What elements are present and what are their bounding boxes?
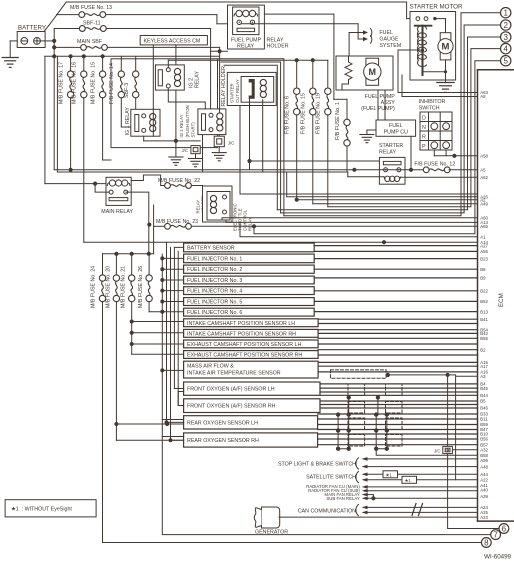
FRONT OXYGEN (A/F) SENSOR LH box: [184, 382, 320, 395]
wire generator to A23: [279, 516, 478, 518]
M/B fuse No. 20 column: [105, 254, 119, 440]
fuel pump CU: [360, 120, 416, 170]
starter motor: [398, 3, 463, 82]
asterisk 1 box a: [383, 471, 398, 478]
svg-text:B13: B13: [480, 309, 488, 314]
wire main relay contact out: [126, 192, 149, 254]
EXHAUST CAMSHAFT POSITION SENSOR R box: [184, 351, 319, 359]
svg-text:SYSTEM: SYSTEM: [379, 43, 401, 49]
M/B fuse No. 17 column: [58, 56, 74, 170]
svg-text:(PUSH BUTTON: (PUSH BUTTON: [185, 105, 190, 137]
svg-text:M/B FUSE No. 16: M/B FUSE No. 16: [72, 62, 78, 104]
wires IG cluster: [219, 51, 221, 113]
svg-text:SBF-3: SBF-3: [124, 83, 130, 98]
svg-text:J/C: J/C: [228, 141, 234, 146]
BATTERY SENSOR box: [184, 243, 315, 252]
svg-text:INHIBITOR: INHIBITOR: [419, 99, 446, 105]
svg-text:GAUGE: GAUGE: [379, 36, 399, 42]
wire SC relay outputs: [249, 99, 251, 170]
svg-text:4: 4: [503, 44, 508, 53]
F/B fuse No. 12: [414, 162, 455, 173]
M/B fuse No. 15 column: [90, 56, 111, 160]
svg-text:B2: B2: [480, 347, 486, 352]
M/B fuse No. 13: [57, 5, 228, 24]
fuel pump assy box: [336, 56, 393, 90]
svg-text:A59: A59: [480, 458, 488, 463]
wires sensor boxes to ECM: [314, 245, 477, 247]
wire stub 194: [240, 193, 478, 195]
svg-text:B55: B55: [480, 336, 488, 341]
wire top feed to starter motor: [66, 1, 406, 3]
generator: [254, 507, 288, 536]
svg-text:BATTERY SENSOR: BATTERY SENSOR: [187, 245, 235, 251]
satellite switch wires: [356, 472, 359, 483]
oxygen shield dashed boxes: [348, 384, 402, 446]
svg-text:A27: A27: [480, 243, 488, 248]
svg-text:EXHAUST CAMSHAFT POSITION SENS: EXHAUST CAMSHAFT POSITION SENSOR LH: [187, 342, 301, 348]
MAIN SBF: [54, 39, 219, 51]
wire diagonal battery to top feed: [49, 2, 67, 26]
starter relay: [379, 143, 405, 184]
svg-text:REAR OXYGEN SENSOR LH: REAR OXYGEN SENSOR LH: [187, 420, 258, 426]
node battery bus: [53, 29, 55, 170]
svg-text:SBF-11: SBF-11: [83, 21, 101, 27]
wire J/C down to connector 6: [448, 454, 499, 529]
svg-text:A8: A8: [480, 94, 486, 99]
ECM box: [478, 70, 514, 521]
svg-text:BATTERY: BATTERY: [18, 25, 46, 32]
wire battery to ground: [10, 40, 17, 42]
svg-text:FUEL INJECTOR No. 3: FUEL INJECTOR No. 3: [187, 278, 242, 284]
FUEL INJECTOR No. 6 box: [184, 308, 315, 316]
svg-text:F/B FUSE No. 12: F/B FUSE No. 12: [414, 162, 455, 168]
svg-text:F/B FUSE No. 6: F/B FUSE No. 6: [285, 96, 291, 134]
svg-text:WI-60499: WI-60499: [484, 554, 511, 561]
wire battery positive feed: [40, 40, 54, 42]
svg-text:M/B FUSE No. 13: M/B FUSE No. 13: [70, 5, 112, 11]
wire header mid fuses: [103, 253, 154, 255]
svg-text:RELAY HOLDER: RELAY HOLDER: [221, 66, 227, 107]
svg-text:KEYLESS ACCESS CM: KEYLESS ACCESS CM: [144, 39, 201, 45]
svg-text:A5: A5: [480, 168, 486, 173]
svg-text:FUEL INJECTOR No. 4: FUEL INJECTOR No. 4: [187, 289, 242, 295]
wire circle 5: [254, 61, 501, 234]
svg-text:A3: A3: [480, 374, 486, 379]
svg-text:M/B FUSE No. 21: M/B FUSE No. 21: [121, 266, 127, 308]
wire FP relay lower to gauge: [241, 23, 358, 25]
wire main relay coil out: [131, 175, 160, 181]
J/C right: [203, 135, 235, 172]
SBF-11: [54, 21, 210, 114]
svg-text:STARTER MOTOR: STARTER MOTOR: [410, 3, 463, 10]
svg-text:J/C: J/C: [182, 148, 188, 153]
svg-text:A23: A23: [480, 515, 488, 520]
rail C: [170, 247, 172, 440]
INTAKE CAMSHAFT POSITION SENSOR LH box: [184, 319, 319, 327]
svg-text:M: M: [369, 67, 377, 77]
svg-text:B56: B56: [480, 437, 488, 442]
svg-text:R: R: [422, 135, 426, 141]
wire inhibitor to A58: [433, 150, 435, 156]
battery: [17, 25, 46, 48]
J/C left: [182, 146, 203, 167]
svg-text:A32: A32: [480, 448, 488, 453]
rail to connector 7: [162, 254, 491, 534]
IG 2 relay: [155, 65, 200, 90]
F/B fuse No. 1 column: [334, 99, 350, 172]
svg-text:B5: B5: [480, 399, 486, 404]
keyless access CM: [140, 36, 207, 110]
wire J/C to A32: [452, 449, 477, 451]
svg-text:FUEL: FUEL: [379, 30, 393, 36]
svg-text:SWITCH: SWITCH: [419, 106, 440, 112]
svg-text:A58: A58: [480, 154, 488, 159]
svg-text:P: P: [422, 144, 426, 150]
svg-text:IG 1 RELAY: IG 1 RELAY: [179, 114, 184, 137]
wire to starter motor contacts: [406, 2, 408, 19]
svg-text:SUB FAN RELAY: SUB FAN RELAY: [326, 496, 359, 501]
F/B fuse No. 6 column: [285, 60, 300, 200]
svg-text:2: 2: [503, 21, 508, 30]
svg-text:REAR OXYGEN SENSOR RH: REAR OXYGEN SENSOR RH: [187, 438, 259, 444]
svg-text:RELAY: RELAY: [237, 44, 254, 50]
svg-text:CAN COMMUNICATION: CAN COMMUNICATION: [298, 508, 356, 514]
wire left feed: [44, 56, 46, 183]
svg-text:F/B FUSE No. 19: F/B FUSE No. 19: [316, 93, 322, 134]
stubs into sensor boxes: [149, 247, 184, 440]
wire circle 3: [277, 37, 500, 210]
wire A1: [240, 222, 478, 237]
ground battery: [2, 58, 18, 68]
connector circles 1-5: [501, 8, 511, 66]
wire starter relay coil feed: [347, 172, 349, 177]
REAR OXYGEN SENSOR LH box: [184, 416, 318, 429]
wire IG1 output to JC: [143, 136, 145, 141]
svg-text:1: 1: [503, 9, 508, 18]
svg-text:EXHAUST CAMSHAFT POSITION SENS: EXHAUST CAMSHAFT POSITION SENSOR RH: [187, 353, 302, 359]
main relay: [101, 177, 133, 215]
shield drain wires: [338, 397, 477, 455]
svg-text:B52: B52: [480, 299, 488, 304]
IG 1 relay (push button start): [179, 105, 226, 137]
svg-text:STARTER: STARTER: [230, 83, 235, 103]
wire A2: [297, 199, 478, 201]
FUEL INJECTOR No. 4 box: [184, 287, 315, 295]
inhibitor switch: [419, 99, 452, 150]
svg-text:7: 7: [493, 530, 498, 539]
rail B: [166, 242, 168, 422]
svg-text:D: D: [422, 116, 426, 122]
footnote box: [5, 500, 96, 517]
rear oxygen feed from fuse column 20: [116, 424, 183, 440]
svg-text:6: 6: [502, 524, 507, 533]
wire A63: [397, 50, 399, 93]
asterisk 1 box b: [402, 476, 417, 483]
svg-text:SATELLITE SWITCH: SATELLITE SWITCH: [306, 475, 356, 481]
svg-text:FRONT OXYGEN (A/F) SENSOR RH: FRONT OXYGEN (A/F) SENSOR RH: [187, 404, 276, 410]
svg-text:CUT RELAY: CUT RELAY: [235, 79, 240, 103]
CAN communication wires: [356, 504, 359, 515]
connector circle 6: [499, 524, 509, 534]
M/B fuse No. 21 column: [121, 254, 135, 354]
IG relay holder box: [111, 59, 218, 148]
svg-text:J/C: J/C: [434, 448, 440, 453]
svg-text:N: N: [422, 125, 426, 131]
svg-text:PUMP CU: PUMP CU: [384, 130, 409, 136]
wire FP relay to corner: [264, 13, 334, 15]
svg-text:MAIN SBF: MAIN SBF: [77, 39, 103, 45]
ground starter motor: [437, 83, 454, 93]
wire A26: [287, 172, 478, 197]
svg-text:★1: ★1: [405, 478, 412, 483]
M/B fuse No. 24 column: [90, 254, 105, 543]
wire MAF shield to J/C: [388, 375, 478, 480]
svg-text:8: 8: [484, 538, 489, 547]
svg-text:A39: A39: [480, 494, 488, 499]
wire A8: [401, 75, 403, 97]
svg-text:5: 5: [503, 57, 508, 66]
motor fuel pump: [364, 58, 381, 85]
electronic throttle control relay: [207, 192, 230, 221]
radiator fan wires: [362, 485, 368, 489]
stop light & brake switch wires: [356, 458, 359, 469]
wires fuel pump assy to CU: [377, 90, 379, 120]
MASS AIR FLOW & INTAKE AIR TEMPERA box: [184, 361, 319, 378]
svg-text:M/B FUSE No. 26: M/B FUSE No. 26: [138, 266, 144, 308]
svg-text:STOP LIGHT & BRAKE SWITCH: STOP LIGHT & BRAKE SWITCH: [278, 462, 356, 468]
M/B fuse No. 23: [148, 205, 198, 254]
F/B fuse No. 15 column: [301, 60, 316, 204]
svg-text:HOLDER: HOLDER: [267, 44, 289, 50]
svg-text:FRONT OXYGEN (A/F) SENSOR LH: FRONT OXYGEN (A/F) SENSOR LH: [187, 387, 275, 393]
svg-text:A1: A1: [480, 234, 486, 239]
wire F/B fuse header: [168, 59, 327, 61]
svg-text:M/B FUSE No. 15: M/B FUSE No. 15: [90, 62, 96, 104]
wire A62: [401, 176, 478, 178]
svg-text:A65: A65: [480, 224, 488, 229]
switch rows bottom: [278, 462, 360, 515]
resistor fuel sender: [342, 56, 352, 90]
INTAKE CAMSHAFT POSITION SENSOR RH box: [184, 329, 319, 337]
rail D: [173, 247, 175, 388]
FUEL INJECTOR No. 1 box: [184, 254, 315, 263]
svg-text:INTAKE CAMSHAFT POSITION SENSO: INTAKE CAMSHAFT POSITION SENSOR LH: [187, 321, 295, 327]
wire keyless feed: [211, 50, 228, 52]
svg-text:B45: B45: [480, 386, 488, 391]
svg-text:A62: A62: [480, 175, 488, 180]
wires nested around starter cut relay: [218, 59, 284, 216]
twisted pair marks: [412, 504, 423, 516]
FRONT OXYGEN (A/F) SENSOR RH box: [184, 399, 320, 413]
svg-text:★1: ★1: [386, 473, 393, 478]
wire circle 1: [284, 13, 501, 216]
sensor stack: [184, 90, 489, 520]
svg-text:IG 1 RELAY: IG 1 RELAY: [125, 107, 131, 136]
MAF shield dashed box: [331, 370, 387, 378]
svg-text:B23: B23: [480, 256, 488, 261]
svg-text:INTAKE CAMSHAFT POSITION SENSO: INTAKE CAMSHAFT POSITION SENSOR RH: [187, 331, 296, 337]
SBF-3 column: [124, 56, 139, 109]
M/B fuse No. 22: [158, 175, 203, 188]
svg-text:F/B FUSE No. 1: F/B FUSE No. 1: [335, 102, 341, 140]
svg-text:B41: B41: [480, 317, 488, 322]
svg-text:B46: B46: [480, 406, 488, 411]
svg-text:F/B FUSE No. 14: F/B FUSE No. 14: [109, 63, 115, 104]
svg-text:A44: A44: [480, 472, 488, 477]
connector circle 7: [491, 530, 501, 540]
ground IG: [175, 141, 177, 157]
svg-text:F/B FUSE No. 15: F/B FUSE No. 15: [301, 93, 307, 134]
svg-text:FUEL: FUEL: [389, 123, 403, 129]
IG 1 relay: [125, 107, 160, 137]
F/B fuse No. 19 column: [316, 60, 331, 207]
fuel pump relay: [231, 7, 262, 50]
rail E: [177, 251, 179, 405]
wire fuse row header: [45, 55, 220, 57]
svg-text:FUEL INJECTOR No. 2: FUEL INJECTOR No. 2: [187, 267, 242, 273]
wire A49: [313, 203, 478, 205]
camshaft sensor feed stubs from fuse column 21: [132, 322, 184, 355]
svg-text:B22: B22: [480, 289, 488, 294]
wire A14 long from fuse16: [84, 241, 478, 243]
svg-text:FUEL INJECTOR No. 6: FUEL INJECTOR No. 6: [187, 310, 242, 316]
svg-text:3: 3: [503, 33, 508, 42]
wire A60: [222, 218, 478, 220]
svg-text:A40: A40: [480, 488, 488, 493]
svg-text:ECM: ECM: [498, 293, 505, 307]
svg-text:FUEL INJECTOR No. 5: FUEL INJECTOR No. 5: [187, 300, 242, 306]
F/B fuse No. 14 column: [109, 56, 131, 127]
svg-text:MAIN RELAY: MAIN RELAY: [101, 209, 133, 215]
svg-text:B44: B44: [480, 393, 488, 398]
relay holder (starter cut): [221, 66, 276, 107]
svg-text:A55: A55: [480, 249, 488, 254]
svg-text:FUEL INJECTOR No. 1: FUEL INJECTOR No. 1: [187, 256, 242, 262]
M/B fuse No. 26 column: [138, 254, 152, 312]
wire circle 2: [281, 25, 501, 213]
M/B fuse No. 16 column: [72, 56, 87, 242]
svg-text:GENERATOR: GENERATOR: [255, 530, 288, 536]
wire A65: [191, 225, 477, 227]
svg-text:B11: B11: [480, 417, 488, 422]
starter cut relay: [241, 77, 274, 103]
svg-text:M: M: [442, 42, 450, 53]
svg-text:START): START): [190, 122, 195, 138]
FUEL INJECTOR No. 3 box: [184, 276, 315, 284]
svg-text:M/B FUSE No. 24: M/B FUSE No. 24: [90, 266, 96, 308]
wire to connector 8: [103, 542, 482, 544]
svg-text:A48: A48: [480, 464, 488, 469]
FUEL INJECTOR No. 2 box: [184, 265, 315, 273]
wire A13: [226, 220, 478, 222]
ECM pin labels: [480, 90, 488, 520]
svg-text:INTAKE AIR TEMPERATURE SENSOR: INTAKE AIR TEMPERATURE SENSOR: [187, 371, 281, 377]
svg-text:M/B FUSE No. 23: M/B FUSE No. 23: [156, 219, 198, 225]
svg-text:RELAY: RELAY: [248, 217, 253, 231]
relay holder ETC: [196, 186, 253, 231]
connector circle 8: [481, 538, 491, 548]
svg-text:STARTER: STARTER: [379, 143, 403, 149]
REAR OXYGEN SENSOR RH box: [184, 433, 318, 447]
wire main relay coil feed: [94, 182, 97, 185]
wire circle 4: [328, 49, 501, 207]
svg-text:A49: A49: [480, 202, 488, 207]
wire A5 line: [54, 169, 423, 171]
svg-text:A17: A17: [480, 364, 488, 369]
fuel gauge system: [349, 29, 401, 57]
FUEL INJECTOR No. 5 box: [184, 298, 315, 306]
svg-text:B8: B8: [480, 267, 486, 272]
wire second long line: [57, 171, 347, 173]
svg-text:M/B FUSE No. 20: M/B FUSE No. 20: [105, 266, 111, 308]
svg-text:RELAY: RELAY: [195, 71, 201, 88]
svg-text:M/B FUSE No. 17: M/B FUSE No. 17: [58, 62, 64, 104]
svg-text:B9: B9: [480, 276, 486, 281]
J/C bottom right: [434, 446, 452, 453]
EXHAUST CAMSHAFT POSITION SENSOR L box: [184, 340, 319, 348]
svg-text:RELAY: RELAY: [379, 150, 396, 156]
fuel pump relay holder box: [228, 5, 265, 49]
svg-text:MASS AIR FLOW &: MASS AIR FLOW &: [187, 363, 234, 369]
svg-text:A22: A22: [480, 478, 488, 483]
svg-text:★1 : WITHOUT EyeSight: ★1 : WITHOUT EyeSight: [11, 507, 72, 513]
svg-text:M/B FUSE No. 22: M/B FUSE No. 22: [158, 178, 200, 184]
